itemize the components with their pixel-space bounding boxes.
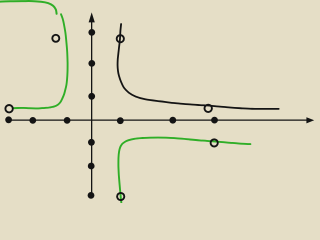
open circle point C (left end of green hook) xyxy=(5,105,12,112)
open circle point D (under black curve, above x-axis) xyxy=(205,105,212,112)
x-axis tick dot x5 xyxy=(169,117,176,124)
y-axis tick dot y3 xyxy=(88,93,95,100)
y-axis tick dot y6 xyxy=(88,192,95,199)
open circle point E (on green lower branch) xyxy=(211,139,218,146)
x-axis tick dot x4 xyxy=(117,117,124,124)
x-axis tick dot x2 xyxy=(29,117,36,124)
x-axis tick dot x6 xyxy=(211,117,218,124)
x-axis tick dot x1 xyxy=(5,116,12,123)
y-axis tick dot y1 xyxy=(88,29,95,36)
black curve: descending branch with horizontal flattening xyxy=(118,24,279,109)
x-axis tick dot x3 xyxy=(64,117,71,124)
y-axis arrowhead xyxy=(89,12,95,22)
open circle point A (isolated, upper-left) xyxy=(52,35,59,42)
y-axis xyxy=(91,21,93,198)
open circle point B (on black curve vertical part) xyxy=(117,35,124,42)
green curve: upper-left branch, steep descent and hook to open circle xyxy=(13,14,67,108)
y-axis tick dot y4 xyxy=(88,139,95,146)
x-axis xyxy=(9,119,308,121)
green curve: upper-left branch, top horizontal segment xyxy=(0,1,57,14)
y-axis tick dot y2 xyxy=(88,60,95,67)
x-axis arrowhead xyxy=(306,117,314,123)
y-axis tick dot y5 xyxy=(88,163,95,170)
open circle point F (on green lower branch bottom) xyxy=(117,193,124,200)
green curve: lower branch from bottom edge through hump to the right xyxy=(118,138,250,204)
